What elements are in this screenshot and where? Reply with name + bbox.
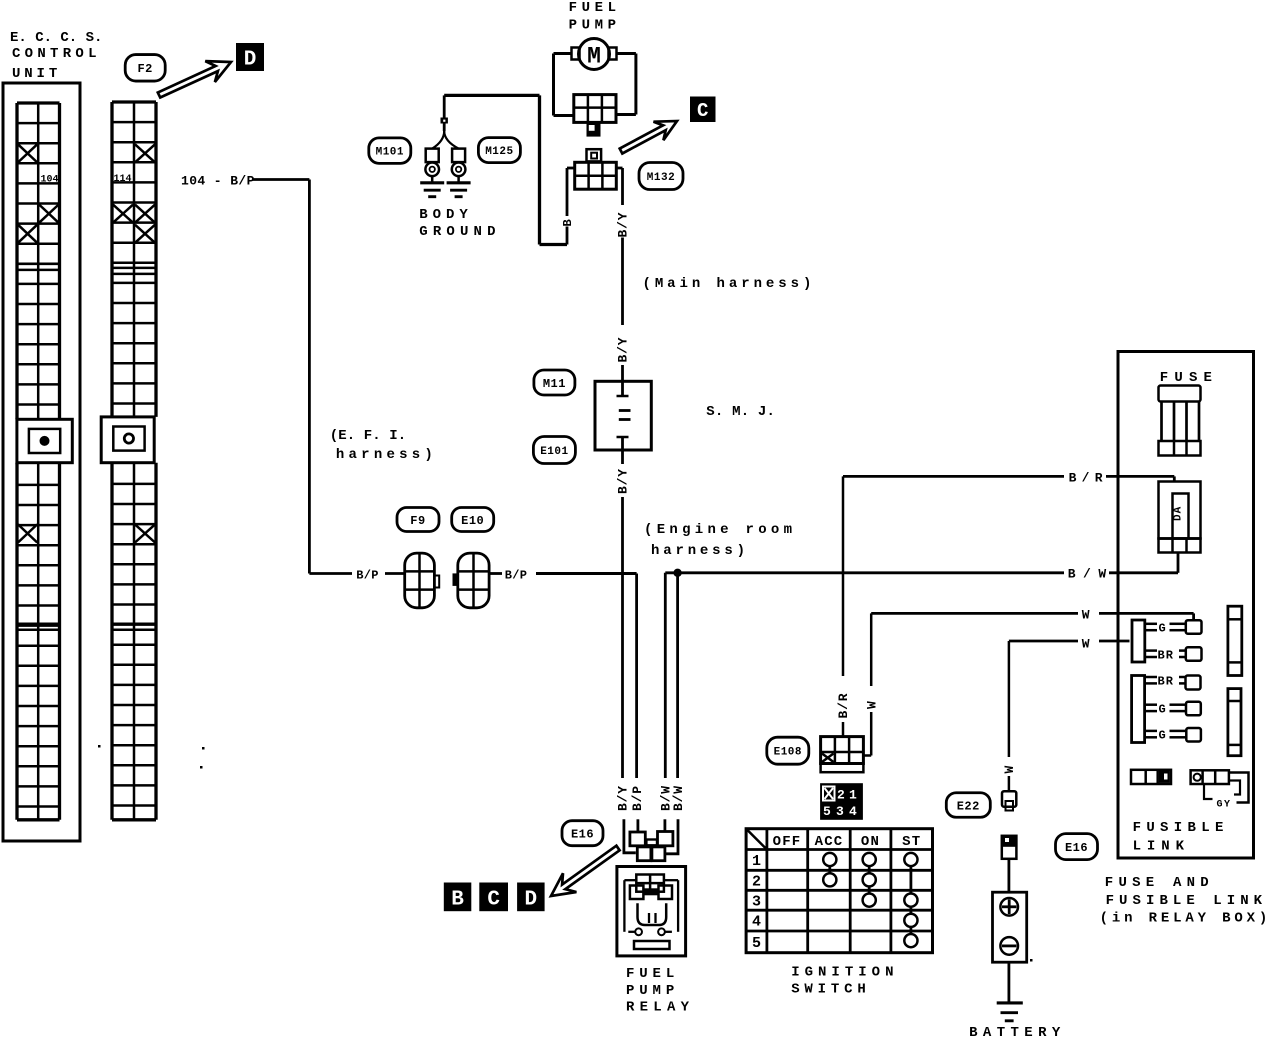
svg-text:BODY: BODY bbox=[419, 207, 473, 223]
svg-text:BR: BR bbox=[1158, 675, 1174, 689]
svg-text:FUSE: FUSE bbox=[1160, 370, 1218, 386]
svg-text:S. M. J.: S. M. J. bbox=[706, 404, 775, 420]
svg-text:W: W bbox=[1082, 608, 1090, 623]
svg-text:SWITCH: SWITCH bbox=[791, 982, 870, 998]
svg-text:4: 4 bbox=[849, 804, 857, 819]
svg-text:ST: ST bbox=[902, 834, 921, 850]
svg-text:2: 2 bbox=[837, 788, 845, 803]
svg-text:FUEL: FUEL bbox=[569, 0, 621, 16]
svg-text:RELAY: RELAY bbox=[626, 1000, 694, 1016]
svg-text:BR: BR bbox=[1158, 648, 1174, 662]
svg-text:GROUND: GROUND bbox=[419, 224, 500, 240]
svg-text:LINK: LINK bbox=[1133, 839, 1190, 855]
svg-text:B/R: B/R bbox=[836, 693, 851, 719]
svg-text:FUSIBLE LINK: FUSIBLE LINK bbox=[1106, 893, 1268, 909]
svg-text:D: D bbox=[244, 49, 257, 72]
svg-text:B/Y: B/Y bbox=[616, 468, 631, 494]
svg-text:G: G bbox=[1159, 729, 1166, 743]
svg-text:B/R: B/R bbox=[1069, 471, 1108, 486]
svg-text:1: 1 bbox=[752, 853, 761, 870]
svg-text:E16: E16 bbox=[571, 828, 594, 842]
svg-text:M101: M101 bbox=[376, 147, 404, 159]
svg-text:M11: M11 bbox=[543, 377, 566, 391]
svg-text:5: 5 bbox=[823, 804, 831, 819]
svg-text:B/Y: B/Y bbox=[616, 337, 631, 363]
svg-text:(Engine room: (Engine room bbox=[644, 522, 796, 538]
svg-text:UNIT: UNIT bbox=[12, 66, 61, 82]
svg-text:D: D bbox=[525, 888, 538, 911]
svg-text:2: 2 bbox=[752, 873, 761, 890]
svg-text:F2: F2 bbox=[137, 62, 152, 76]
svg-text:B/P: B/P bbox=[630, 785, 645, 811]
svg-text:FUSE AND: FUSE AND bbox=[1105, 875, 1214, 891]
svg-text:5: 5 bbox=[752, 935, 761, 952]
svg-text:3: 3 bbox=[836, 804, 844, 819]
svg-text:FUSIBLE: FUSIBLE bbox=[1133, 820, 1229, 836]
svg-text:G: G bbox=[1159, 702, 1166, 716]
svg-text:W: W bbox=[864, 700, 879, 709]
svg-text:C: C bbox=[487, 888, 500, 911]
svg-text:ON: ON bbox=[861, 834, 880, 850]
svg-text:E101: E101 bbox=[540, 446, 568, 458]
svg-text:PUMP: PUMP bbox=[626, 983, 679, 999]
svg-text:W: W bbox=[1002, 765, 1017, 774]
svg-text:C: C bbox=[697, 100, 708, 122]
svg-text:DA: DA bbox=[1172, 506, 1184, 521]
svg-text:F9: F9 bbox=[410, 514, 425, 528]
svg-text:M125: M125 bbox=[485, 146, 513, 158]
svg-text:G: G bbox=[1159, 622, 1166, 636]
svg-text:B: B bbox=[561, 218, 575, 226]
svg-text:BATTERY: BATTERY bbox=[969, 1025, 1066, 1038]
svg-text:B/Y: B/Y bbox=[616, 785, 631, 811]
svg-text:B/W: B/W bbox=[1068, 567, 1114, 582]
svg-text:E16: E16 bbox=[1065, 841, 1088, 855]
svg-text:M: M bbox=[587, 44, 601, 70]
svg-text:B/P: B/P bbox=[505, 569, 528, 583]
svg-text:W: W bbox=[1082, 637, 1090, 652]
svg-text:3: 3 bbox=[752, 893, 761, 910]
svg-text:PUMP: PUMP bbox=[569, 18, 621, 34]
svg-text:E. C. C. S.: E. C. C. S. bbox=[10, 30, 102, 46]
svg-text:FUEL: FUEL bbox=[626, 966, 679, 982]
svg-text:GY: GY bbox=[1217, 800, 1232, 811]
svg-text:harness): harness) bbox=[651, 543, 749, 559]
svg-text:OFF: OFF bbox=[773, 834, 802, 850]
svg-text:104: 104 bbox=[41, 175, 59, 186]
svg-text:(Main harness): (Main harness) bbox=[643, 276, 816, 292]
svg-text:(in RELAY BOX): (in RELAY BOX) bbox=[1100, 911, 1272, 927]
svg-text:E108: E108 bbox=[774, 747, 802, 759]
svg-text:B: B bbox=[451, 888, 464, 911]
svg-text:B/W: B/W bbox=[671, 785, 686, 811]
svg-text:CONTROL: CONTROL bbox=[12, 46, 101, 62]
svg-text:104 - B/P: 104 - B/P bbox=[181, 174, 255, 189]
svg-text:B/P: B/P bbox=[356, 569, 379, 583]
svg-text:B/Y: B/Y bbox=[616, 212, 631, 238]
svg-text:1: 1 bbox=[849, 788, 857, 803]
svg-text:(E. F. I.: (E. F. I. bbox=[330, 428, 407, 444]
svg-text:IGNITION: IGNITION bbox=[791, 965, 898, 981]
svg-text:harness): harness) bbox=[336, 447, 437, 463]
svg-text:E22: E22 bbox=[957, 799, 980, 813]
svg-text:M132: M132 bbox=[647, 172, 675, 184]
svg-text:114: 114 bbox=[114, 174, 132, 185]
svg-text:E10: E10 bbox=[461, 514, 484, 528]
svg-text:4: 4 bbox=[752, 914, 761, 931]
svg-text:ACC: ACC bbox=[815, 834, 844, 850]
